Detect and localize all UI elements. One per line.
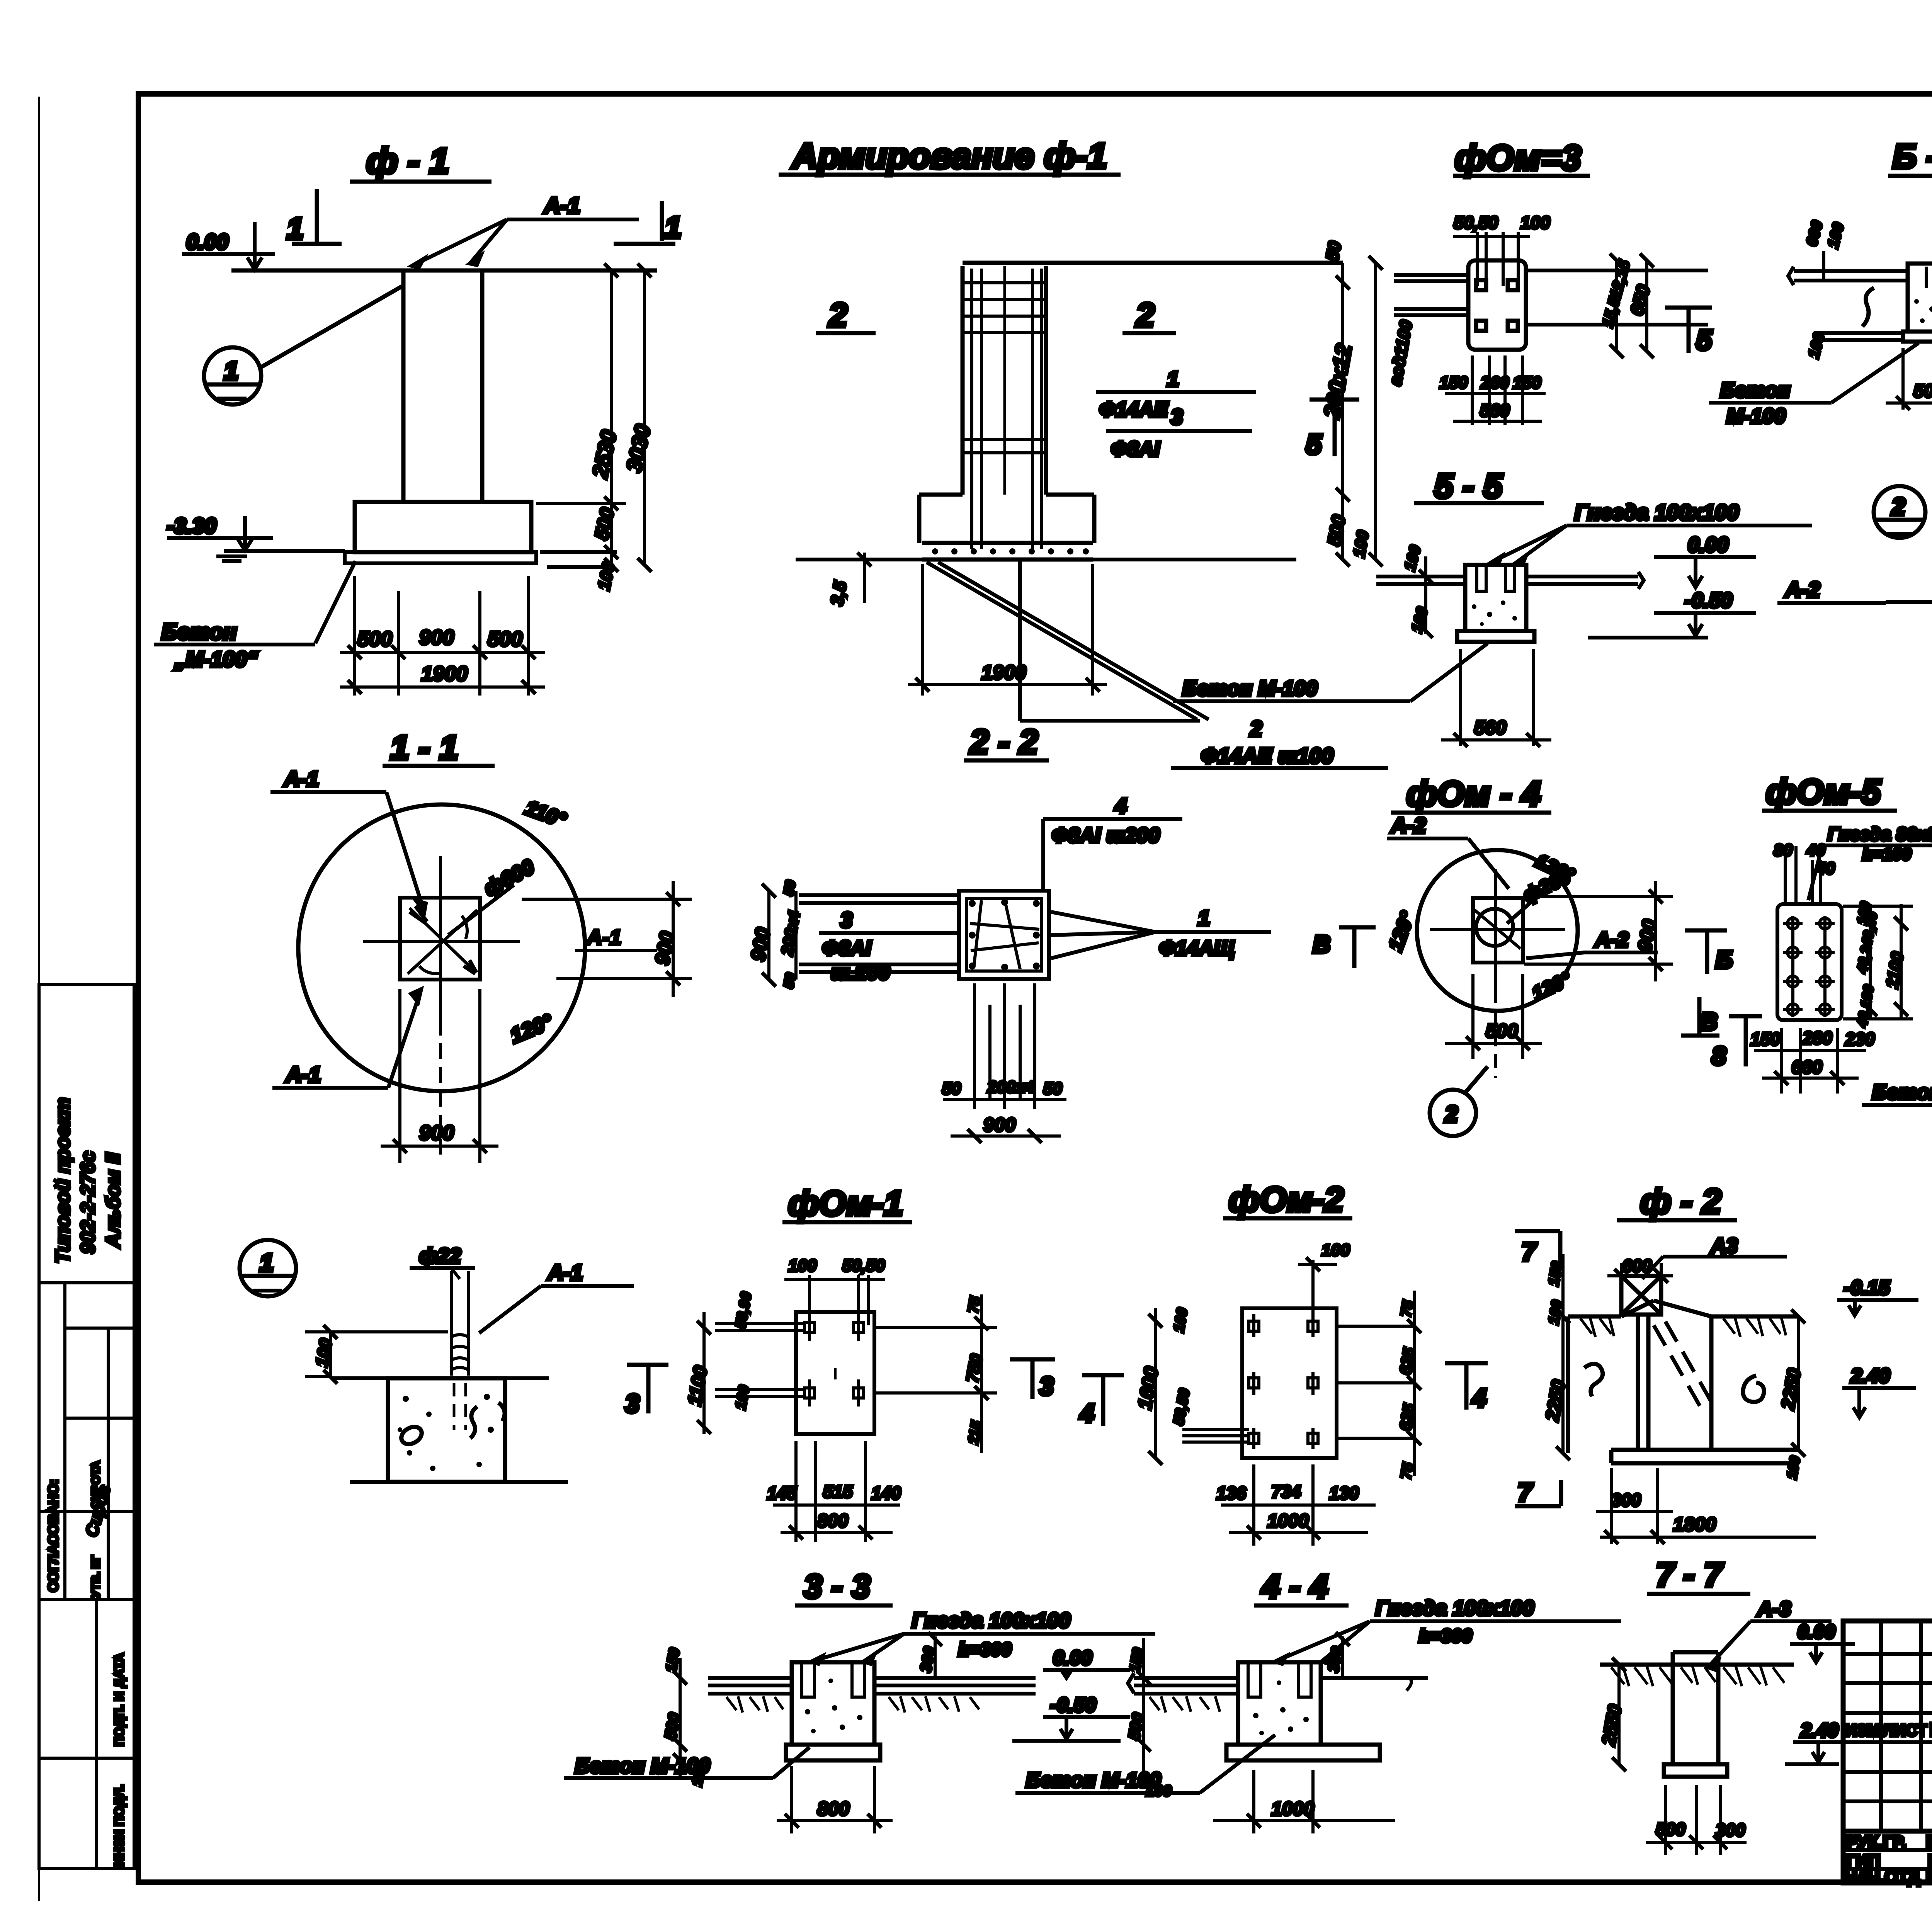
section label 2 left [816,297,876,334]
view FOM-4 title [1391,775,1551,813]
svg-text:2: 2 [828,297,847,334]
3-3 level -0.50 [1012,1694,1130,1741]
anchor detail concrete block [388,1378,505,1482]
2-2 label 3 F8AI sh200 [819,908,958,984]
svg-text:А-1: А-1 [543,193,580,218]
svg-text:h=300: h=300 [1419,1626,1472,1646]
svg-text:А-1: А-1 [586,925,621,949]
svg-text:2: 2 [1445,1102,1458,1127]
svg-text:В: В [1313,931,1330,958]
svg-text:500: 500 [1656,1819,1685,1839]
svg-text:75: 75 [1398,1461,1417,1481]
svg-text:„М-100“: „М-100“ [174,647,258,671]
5-5 label Beton M-100 [1173,643,1488,701]
svg-text:4: 4 [1114,794,1127,818]
svg-text:Альбом II: Альбом II [102,1152,124,1249]
FOM-2 plate plan [1242,1308,1337,1458]
svg-text:75: 75 [1398,1299,1417,1318]
label Beton M-100 [154,561,355,671]
svg-text:Гнезда 100х100: Гнезда 100х100 [1376,1597,1534,1620]
dim line 3030 right [621,264,655,572]
FOM-4 section mark B right [1685,930,1733,974]
svg-text:515: 515 [823,1481,853,1502]
svg-text:4 - 4: 4 - 4 [1261,1568,1328,1605]
section mark 1 left [287,189,342,245]
foundation block of F-1 [355,502,531,552]
svg-text:1000: 1000 [1267,1511,1309,1531]
reinforced column outline [963,263,1343,495]
pedestal of armirovanie [919,495,1094,560]
B-B beam bars [1788,267,1932,285]
FOM-3 bottom dims 150 260 150 560 [1439,355,1546,425]
FOM-1 bolts [804,1314,864,1406]
svg-text:900: 900 [983,1114,1016,1136]
svg-text:СОГЛАСОВАНО:: СОГЛАСОВАНО: [45,1479,61,1592]
svg-text:А-1: А-1 [285,1062,321,1087]
3-3 speckles [805,1679,862,1733]
svg-text:1900: 1900 [981,662,1026,684]
4-4 label gnezda 100x100 h300 [1275,1597,1621,1664]
svg-text:2: 2 [1891,493,1905,520]
svg-text:ф - 2: ф - 2 [1640,1182,1721,1221]
svg-text:2: 2 [1135,297,1155,334]
svg-text:-3.30: -3.30 [167,514,216,538]
svg-text:4: 4 [1471,1383,1486,1412]
section mark 5 [1306,400,1359,460]
svg-text:NДОКУМ.: NДОКУМ. [1930,1719,1932,1740]
F-2 dim 600 [1607,1256,1673,1287]
view FOM-1 title [782,1184,912,1223]
F-2 squiggle 6 [1743,1376,1764,1402]
armirovanie bottom dim 1900 [908,564,1107,696]
dim 3,5 left [827,553,871,607]
svg-text:900: 900 [419,1121,454,1145]
label 3 F8AI [1106,405,1252,461]
svg-text:500: 500 [1913,381,1932,401]
svg-text:40: 40 [1816,859,1835,878]
view 1-1 title [383,728,495,767]
1-1 column square [400,898,480,980]
left margin line [38,97,40,1901]
section mark 3 right [1010,1359,1055,1400]
svg-text:3: 3 [625,1389,639,1418]
svg-text:0.00: 0.00 [1053,1647,1092,1669]
section mark 4 left [1079,1375,1124,1427]
svg-text:100: 100 [788,1256,817,1275]
svg-text:ПОДП. И ДАТА: ПОДП. И ДАТА [112,1653,127,1747]
svg-text:А-2: А-2 [1784,577,1820,602]
svg-text:1: 1 [1167,367,1179,391]
svg-text:150: 150 [1513,373,1541,392]
svg-text:1: 1 [224,356,238,385]
F-2 bottom slab [1611,1450,1798,1463]
view 3-3 title [795,1568,893,1605]
svg-text:РУК.ГР.: РУК.ГР. [1846,1833,1906,1852]
svg-text:1000: 1000 [1271,1798,1314,1820]
svg-text:КРАСАВИН: КРАСАВИН [1926,1867,1932,1886]
svg-text:734: 734 [1271,1481,1301,1502]
svg-text:50: 50 [942,1079,961,1098]
view F-2 title [1617,1182,1737,1221]
title block revision grid [1879,1621,1883,1831]
svg-text:Б: Б [1716,947,1733,973]
B-B lower bar [1814,333,1903,340]
2-2 label 4 F8AI sh200 above [1043,794,1182,893]
bent-down bars below pedestal [927,561,1209,721]
2-2 bottom vertical bars [975,983,1035,1109]
svg-text:140: 140 [871,1483,901,1503]
svg-text:ф22: ф22 [419,1244,461,1267]
view FOM-2 title [1223,1180,1352,1219]
svg-text:7: 7 [1522,1237,1537,1266]
svg-text:Гнезда 80х80: Гнезда 80х80 [1828,824,1932,845]
2-2 column square with rebar [959,891,1049,979]
3-3 level 0.00 [1043,1647,1130,1678]
FOM-2 left dims 1600 100 [1134,1307,1193,1465]
F-2 section mark 7 bottom [1515,1478,1561,1507]
svg-text:500: 500 [357,628,392,651]
5-5 level -0.50 [1588,589,1756,638]
FOM-2 rebar lines left bottom [1182,1430,1249,1442]
1-1 phi600 label [448,855,538,935]
view F-1 title [350,141,492,182]
svg-text:Б - Б: Б - Б [1893,137,1932,175]
svg-text:260: 260 [1480,373,1509,392]
anchor detail ground lines [332,1378,568,1482]
FOM-3 section mark 5 right [1665,308,1712,356]
ground line right of slab [540,552,617,567]
svg-text:фОм - 4: фОм - 4 [1406,775,1541,813]
bottom dims 500 900 500 / 1900 [340,576,545,696]
label Beton M-100 right [1862,1072,1932,1105]
svg-text:500: 500 [488,628,522,651]
FOM-1 rebar lines left [715,1323,804,1396]
FOM-4 circle [1417,850,1578,1011]
FOM-5 bolts [1783,916,1835,1017]
FOM-1 top dims 100 50 50 [784,1256,885,1325]
FOM-4 section mark B bottom [1681,997,1719,1036]
7-7 level 2.40 [1785,1719,1858,1764]
FOM-2 top dim 100 [1298,1241,1350,1323]
svg-text:50: 50 [1043,1079,1062,1098]
svg-text:50: 50 [781,972,799,990]
svg-text:3: 3 [840,908,852,932]
svg-text:500: 500 [1486,1020,1518,1042]
svg-text:800: 800 [817,1798,850,1820]
svg-text:1: 1 [665,210,681,244]
7-7 ground hatch [1611,1666,1784,1686]
3-3 label Beton M-100 [564,1747,810,1778]
2-2 label 1 F14AIII right [1051,906,1271,960]
svg-text:А-2: А-2 [1594,928,1629,951]
svg-text:7: 7 [1518,1478,1533,1507]
anchor detail label A-1 [479,1260,634,1333]
svg-text:Гнезда 100х100: Гнезда 100х100 [912,1609,1070,1632]
B-B embed block [1908,264,1932,332]
section mark 3 left [625,1365,668,1418]
7-7 bottom dims 500 300 [1646,1785,1747,1855]
svg-text:А3: А3 [1710,1234,1738,1257]
view FOM-5 title [1762,773,1897,811]
svg-text:600: 600 [1622,1256,1652,1276]
FOM-2 lines right of bolts [1337,1326,1414,1438]
svg-text:0.00: 0.00 [1798,1621,1835,1643]
1-1 label A-1 bottom with leader [272,989,421,1088]
FOM-5 right dims 40 260x4 160 [1843,900,1913,1029]
svg-text:5: 5 [1306,429,1322,460]
svg-text:фОм-2: фОм-2 [1229,1180,1344,1219]
FOM-4 bottom dim 500 [1445,974,1542,1059]
column rebar vertical bars [972,269,1042,549]
svg-text:560: 560 [1474,717,1507,738]
svg-text:3 - 3: 3 - 3 [804,1568,870,1605]
anchor detail dim 100 [305,1325,448,1384]
FOM-4 crosshair [1430,869,1565,1078]
column stirrups [964,266,1044,495]
anchor detail label f22 [410,1244,475,1279]
svg-text:300: 300 [1611,1490,1641,1510]
2-2 stirrup band left [799,895,959,972]
svg-text:1 - 1: 1 - 1 [390,728,458,767]
svg-text:2.40: 2.40 [1800,1719,1838,1741]
FOM-3 beam lines left [1394,275,1468,315]
svg-text:Бетон: Бетон [162,619,237,645]
svg-text:1: 1 [287,211,303,245]
svg-text:А-2: А-2 [1390,813,1426,837]
F-2 right dim 2250 [1777,1310,1805,1480]
FOM-1 bottom dims 145 515 140 / 800 [767,1441,901,1542]
left stamp column project box [39,985,134,1283]
base slab of F-1 [345,552,536,563]
svg-text:660: 660 [1791,1057,1822,1078]
section mark 4 right [1445,1363,1488,1412]
svg-text:Ф14АЕ ш100: Ф14АЕ ш100 [1201,743,1333,768]
1-1 label A-1 top with leader [270,767,426,912]
F-2 dashed pile [1654,1321,1712,1406]
svg-text:300: 300 [1716,1820,1745,1840]
1-1 anchor diagonals [408,906,477,974]
B-B bottom dim 500 [1886,348,1932,410]
left stamp utv box [39,1512,134,1600]
svg-text:5 - 5: 5 - 5 [1434,467,1503,505]
2-2 rebar dots [969,899,1040,971]
3-3 block with slots [792,1662,874,1745]
7-7 level 0.00 [1790,1621,1855,1662]
7-7 label A-3 [1708,1597,1832,1670]
view FOM-3 title [1453,138,1590,178]
left stamp agreement grid [39,1283,134,1592]
label 2 F14AIII sh100 [1171,716,1388,768]
svg-text:50,50: 50,50 [842,1256,885,1275]
1-1 crosshair [363,856,520,1157]
column of F-1 [403,270,482,502]
svg-text:4: 4 [1079,1399,1094,1427]
detail circle 2 above [1874,486,1925,538]
svg-text:фОм=3: фОм=3 [1455,138,1581,178]
F-2 label A-3 [1642,1234,1787,1279]
2-2 bottom dims 50 200x4 50 / 900 [942,1078,1066,1143]
dim line 2530/500/100 right [487,264,657,592]
7-7 column [1673,1652,1718,1764]
FOM-3 anchor plate plan [1468,260,1526,350]
svg-text:1: 1 [260,1249,274,1277]
3-3 left dims [661,1647,709,1788]
svg-text:ИНЗИ ПОДЛ.: ИНЗИ ПОДЛ. [112,1784,127,1866]
svg-text:2 - 2: 2 - 2 [969,723,1038,761]
F-2 pile head square [1621,1276,1661,1315]
svg-text:ф - 1: ф - 1 [366,141,449,181]
svg-text:М-100: М-100 [1726,405,1786,428]
1-1 bottom dim 900 [381,989,498,1163]
svg-text:200х4: 200х4 [987,1078,1034,1097]
F-2 ground lines [1568,1301,1798,1316]
svg-text:8: 8 [1712,1041,1726,1070]
3-3 ground hatch [726,1696,979,1713]
svg-text:Бетон М-100: Бетон М-100 [575,1754,710,1777]
svg-text:фОм-1: фОм-1 [788,1184,903,1223]
4-4 line right [1321,1678,1428,1690]
right dim line 2 [1369,256,1416,566]
section mark 1 right [614,201,681,244]
svg-text:-0.50: -0.50 [1050,1694,1096,1716]
view 5-5 title [1414,467,1544,505]
B-B base plate [1903,332,1932,342]
FOM-4 label f260 [1507,866,1574,923]
anchor detail circle 1 marker [240,1240,296,1296]
svg-text:1800: 1800 [1673,1514,1716,1535]
4-4 block with slots [1238,1662,1321,1745]
right dim line 200x12 [1319,240,1372,566]
svg-text:ШАПИРО: ШАПИРО [1926,1833,1932,1852]
svg-text:Гнезда 100х100: Гнезда 100х100 [1575,500,1739,524]
4-4 base plate [1226,1745,1380,1760]
svg-text:1900: 1900 [421,662,468,685]
F-2 section mark 7 top [1515,1231,1560,1271]
svg-text:-0.15: -0.15 [1844,1277,1890,1299]
section mark V right of 2-2 [1313,927,1376,968]
FOM-5 label gnezda 80x80 [1808,824,1932,900]
4-4 left dims 150 500 100 [1125,1638,1172,1799]
svg-text:50: 50 [1322,240,1345,263]
svg-text:Типовой проект: Типовой проект [52,1097,74,1264]
svg-text:h=100: h=100 [1862,845,1912,864]
FOM-1 lines right [874,1327,997,1393]
svg-text:230: 230 [1845,1029,1875,1049]
5-5 bottom dim 560 [1441,649,1551,747]
F-2 level -0.15 [1837,1277,1918,1315]
svg-text:А-3: А-3 [1757,1597,1791,1621]
svg-text:130: 130 [1329,1483,1359,1503]
B-B block speckles [1914,291,1932,325]
svg-text:Бетон М-100: Бетон М-100 [1872,1081,1932,1104]
svg-text:0.00: 0.00 [1688,533,1728,556]
FOM-3 top dims 50 50 100 [1453,213,1550,286]
svg-text:2.40: 2.40 [1850,1365,1890,1387]
detail circle 1 with leader [204,286,403,405]
svg-text:900: 900 [419,626,454,649]
svg-text:150: 150 [1750,1029,1780,1049]
FOM-4 detail circle 2 bottom [1430,1066,1488,1136]
FOM-2 right dims 75 625 625 75 [1396,1291,1421,1481]
2-2 left dims 900 / 200x4 50 [747,879,803,990]
FOM-4 right dim 900 [1524,881,1673,981]
view B-B title [1888,137,1932,176]
title block outer [1843,1621,1932,1932]
svg-text:Ф8АI: Ф8АI [822,937,871,960]
ground line 0.00 of F-1 [231,269,657,273]
svg-text:Армирование ф-1: Армирование ф-1 [791,136,1107,176]
svg-text:Ф14АЕ: Ф14АЕ [1099,398,1168,421]
FOM-2 bolts [1249,1314,1318,1449]
svg-text:7 - 7: 7 - 7 [1656,1556,1724,1594]
svg-text:40: 40 [1806,841,1825,860]
5-5 block speckles [1472,600,1517,626]
4-4 label Beton M-100 [1015,1735,1275,1793]
svg-text:А-1: А-1 [283,767,319,791]
svg-text:Ф8АI ш200: Ф8АI ш200 [1052,824,1160,847]
5-5 label gnezda 100x100 [1492,500,1812,564]
FOM-2 bottom dims 136 734 130 / 1000 [1216,1464,1376,1546]
svg-text:50: 50 [781,879,799,897]
7-7 base plate [1664,1764,1727,1777]
V-V ground lines [1777,577,1932,603]
svg-text:136: 136 [1216,1483,1246,1503]
4-4 bottom dim 1000 [1213,1770,1395,1833]
F-2 left dims 150 100 2250 [1542,1254,1570,1460]
F-2 level 2.40 [1842,1365,1916,1417]
ground line armirovanie [796,558,1296,561]
svg-text:Бетон М-100: Бетон М-100 [1182,677,1317,700]
svg-text:1: 1 [1198,906,1210,930]
3-3 dim 300 [917,1632,942,1679]
5-5 level 0.00 [1654,533,1756,587]
7-7 dim 2550 [1598,1658,1626,1771]
label 1 F14AIII [1096,367,1256,421]
3-3 bottom dim 800 [777,1766,893,1833]
view Armirovanie F-1 title [779,136,1121,176]
1-1 circle outline [298,804,585,1091]
svg-text:НАЧ.ОТД: НАЧ.ОТД [1845,1867,1920,1886]
svg-text:100: 100 [1321,1241,1350,1260]
svg-text:280: 280 [1802,1028,1832,1048]
FOM-5 plate with bolt grid [1777,904,1842,1020]
svg-text:560: 560 [1480,400,1510,420]
svg-text:145: 145 [767,1483,797,1503]
svg-text:80: 80 [1774,841,1793,860]
4-4 ground hatch left [1150,1696,1220,1713]
section label 2 right [1122,297,1176,334]
ground line -3.30 left [224,549,345,553]
svg-text:ИЗМ: ИЗМ [1845,1721,1881,1739]
3-3 slab lines [708,1678,1036,1694]
svg-text:3: 3 [1171,405,1183,429]
5-5 left dims [1401,543,1433,638]
svg-text:h=300: h=300 [958,1639,1012,1660]
svg-text:902-2-276с: 902-2-276с [77,1151,99,1254]
anchor detail bolt rod [451,1271,468,1376]
F-2 bottom dims 300 1800 [1596,1468,1816,1544]
svg-text:3: 3 [1039,1372,1054,1400]
FOM-4 inner hole circle [1476,909,1513,946]
svg-text:800: 800 [817,1511,848,1531]
svg-text:УТВ. КГ: УТВ. КГ [90,1555,102,1598]
svg-text:Бетон М-100: Бетон М-100 [1026,1769,1161,1792]
svg-text:100: 100 [1520,213,1550,233]
rebar label A-1 with leaders [412,193,639,267]
level mark 0.00 [182,222,275,270]
3-3 label gnezda 100x100 h300 [811,1609,1155,1664]
section mark 8 left of FOM-5 [1712,1016,1762,1070]
